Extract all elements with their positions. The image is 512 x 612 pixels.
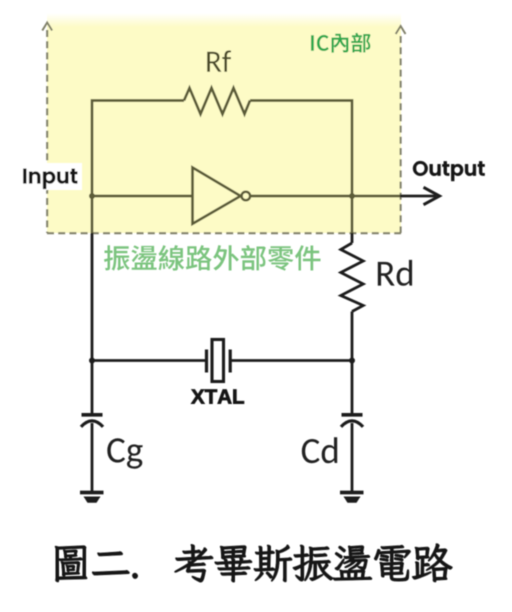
node: output junction [349, 193, 355, 199]
wire: XTAL row right segment [230, 359, 352, 362]
wire: down to capacitor Cd [351, 361, 354, 415]
label Input [23, 169, 77, 189]
label Cd [302, 437, 337, 463]
op-amp U1 (inverter triangle) [193, 168, 241, 224]
ground (below Cg): pad [84, 497, 101, 503]
wire: Rd to XTAL row [351, 312, 354, 361]
node: input junction [89, 193, 95, 199]
wire: input node down to XTAL row (outside region) [91, 233, 94, 361]
label IC內部 (green) [311, 33, 371, 53]
crystal XTAL: right electrode [229, 350, 232, 373]
wire: output arrow shaft (outside IC region) [400, 195, 436, 198]
wire: XTAL row left segment [92, 359, 207, 362]
label Cg [107, 438, 142, 468]
node: XTAL right junction [349, 358, 355, 364]
ground (below Cg): bar [80, 491, 104, 495]
up-arrow on right border [396, 26, 406, 34]
crystal XTAL: left electrode [205, 350, 208, 373]
capacitor Cd: top plate [342, 413, 363, 417]
wire: output node down inside region [351, 196, 354, 233]
IC internal region (yellow highlight) [47, 13, 401, 233]
capacitor Cg: curved bottom plate [81, 421, 103, 427]
arrowhead of Output [424, 187, 440, 204]
capacitor Cd: curved bottom plate [341, 421, 363, 427]
caption 圖二. 考畢斯振盪電路 [55, 544, 452, 583]
node: XTAL left junction [89, 358, 95, 364]
wire: Cd to ground [351, 423, 354, 491]
inverter output bubble [242, 192, 251, 201]
crystal XTAL: body rectangle [212, 340, 224, 382]
label Rd [378, 260, 412, 286]
white halo behind Input label [19, 163, 82, 190]
dashed right border of IC region [400, 36, 402, 233]
up-arrow on left border [42, 23, 52, 31]
label Output [413, 161, 485, 181]
wire: input node vertical + top-left of Rf loop [92, 101, 184, 197]
label Rf [207, 50, 231, 71]
label XTAL [191, 390, 244, 404]
dashed bottom border of IC region [47, 232, 401, 234]
label 振盪線路外部零件 (green) [104, 245, 321, 271]
wire: Rf to right corner down to output node [250, 101, 352, 197]
wire: Cg to ground [91, 423, 94, 491]
resistor Rf (zigzag) [184, 88, 250, 114]
ground (below Cd): bar [340, 491, 364, 495]
wire: input node down inside region [91, 196, 94, 233]
wire: stub above Rd [351, 233, 354, 243]
ground (below Cd): pad [344, 497, 361, 503]
capacitor Cg: top plate [82, 413, 103, 417]
dashed left border of IC region [46, 30, 48, 233]
wire: down to capacitor Cg [91, 361, 94, 415]
wire: input to inverter [92, 195, 193, 198]
wire: inverter output to output node [250, 195, 400, 198]
resistor Rd (vertical zigzag) [341, 243, 363, 312]
